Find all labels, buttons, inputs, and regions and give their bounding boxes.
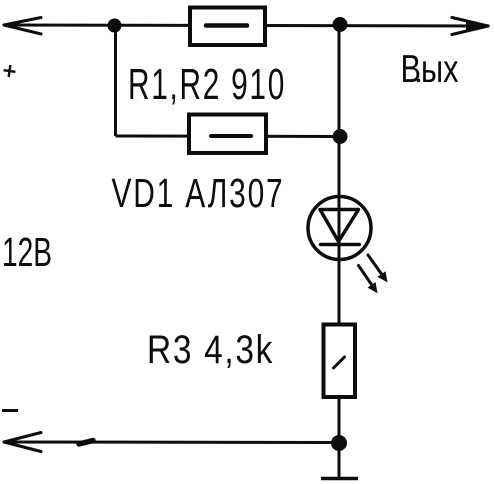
- wire top rail: [4, 25, 488, 26]
- svg-text:R3 4,3k: R3 4,3k: [147, 328, 274, 372]
- node junction middle: [333, 129, 348, 144]
- LED VD1 triangle: [320, 210, 359, 242]
- svg-text:R1,R2 910: R1,R2 910: [128, 61, 286, 109]
- svg-text:12В: 12В: [2, 229, 52, 275]
- node junction top-right: [333, 17, 348, 32]
- resistor R2: [189, 115, 266, 154]
- resistor R3: [324, 325, 356, 398]
- svg-text:Вых: Вых: [401, 48, 459, 91]
- wire bottom rail: [4, 441, 339, 445]
- LED light arrow 2: [359, 266, 378, 294]
- plus terminal mark: [3, 64, 17, 78]
- minus terminal mark: [2, 409, 18, 412]
- resistor R1: [190, 8, 265, 46]
- node junction bottom: [331, 435, 347, 451]
- wire main vertical rail: [338, 25, 341, 478]
- LED light arrow 1: [368, 255, 388, 283]
- arrow right top (output): [452, 18, 489, 35]
- wire blob mark on bottom rail: [79, 441, 93, 445]
- arrow left bottom (- input): [4, 433, 41, 452]
- LED VD1 circle: [308, 197, 371, 260]
- ground bar: [321, 477, 358, 481]
- wire left branch vertical: [114, 25, 117, 136]
- node junction top-left: [108, 19, 122, 33]
- wire lower branch horizontal: [116, 135, 340, 139]
- arrow left top (+ input): [4, 18, 41, 35]
- LED VD1 cathode bar: [321, 243, 360, 247]
- svg-text:VD1 АЛ307: VD1 АЛ307: [112, 170, 285, 216]
